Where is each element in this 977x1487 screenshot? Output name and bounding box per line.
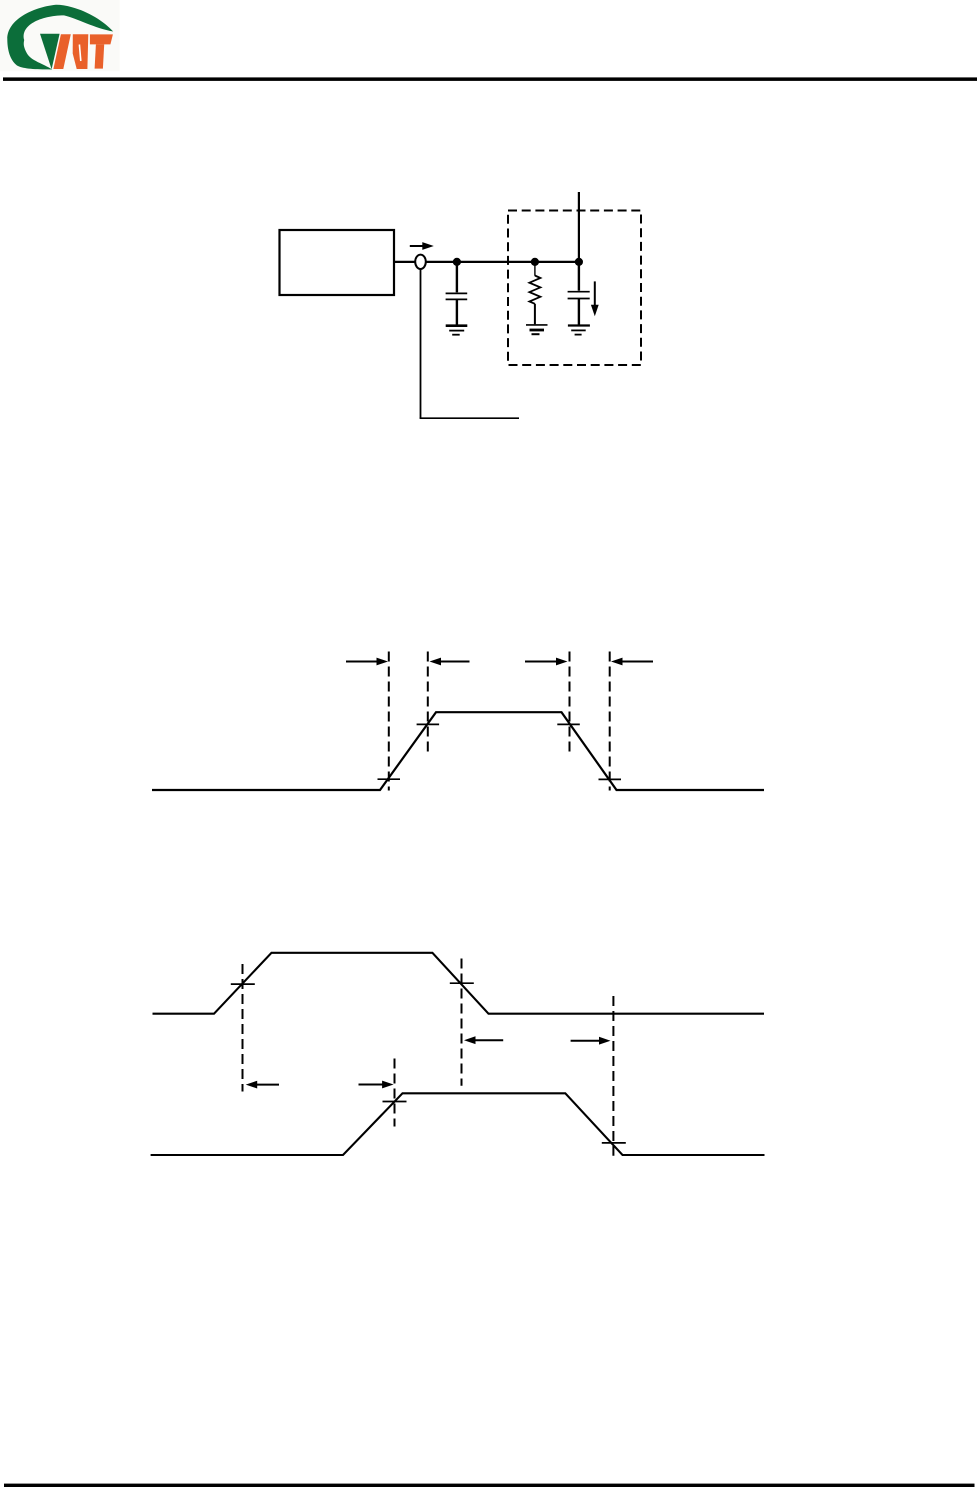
capacitor CL [568,262,590,325]
signal direction arrow [410,242,434,250]
arrow tplh left [246,1081,279,1089]
node C junction [575,258,583,266]
header rule [3,77,977,81]
wire probe to node C [426,261,579,263]
resistor RL [529,262,540,324]
logo GMT [0,0,120,71]
tick input rising [231,983,255,985]
tick 90% rising [417,723,440,725]
footer rule [4,1484,975,1487]
capacitor C1 [446,262,468,325]
measurement dashed line e3 [461,959,463,1086]
ground return wire [420,269,519,418]
arrow tf right [611,658,653,666]
node A junction [453,258,461,266]
arrow tr right [430,658,470,666]
tick output falling [602,1142,626,1144]
tick 10% falling [599,778,622,780]
supply line [578,192,580,262]
pulse generator box [280,230,395,295]
measurement dashed line e2 [394,1059,396,1127]
measurement dashed line e1 [242,964,244,1092]
tick input falling [450,982,474,984]
waveform 2 output [151,1093,765,1155]
arrow tr left [346,658,388,666]
measurement dashed line d3 [569,652,571,755]
dashed load enclosure [508,211,641,366]
load current arrow [591,281,599,316]
tick output rising [383,1101,407,1103]
arrow tphl left [464,1036,503,1044]
ground for C1 [446,326,468,335]
measurement dashed line d4 [609,652,611,791]
wire box to probe [394,261,415,263]
waveform 1 pulse [152,712,764,790]
tick 10% rising [378,778,401,780]
arrow tphl right [571,1037,611,1045]
probe terminal circle [415,255,426,269]
measurement dashed line e4 [612,996,614,1156]
tick 90% falling [557,723,580,725]
node B junction [531,258,539,266]
arrow tplh right [359,1081,394,1089]
arrow tf left [525,658,568,666]
measurement dashed line d2 [427,652,429,755]
waveform 2 input [153,953,765,1014]
measurement dashed line d1 [388,652,390,791]
ground for RL [526,325,548,334]
ground for CL [568,326,590,335]
